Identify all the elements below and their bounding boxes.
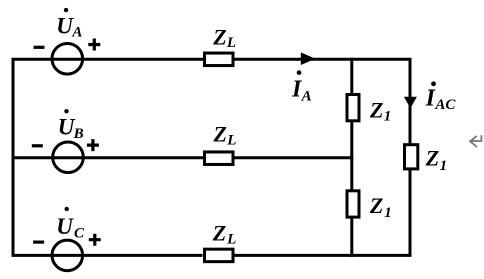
label ZL top — [212, 24, 236, 51]
svg-text:Z: Z — [369, 193, 383, 218]
paragraph return mark — [470, 135, 481, 147]
label U_C with dot — [56, 207, 85, 242]
svg-text:Z: Z — [425, 145, 439, 170]
source U_B — [53, 142, 84, 173]
svg-text:L: L — [226, 35, 236, 51]
svg-text:U: U — [56, 214, 74, 239]
wire branch vertical middle segment — [350, 121, 353, 191]
label ZL middle — [213, 122, 237, 149]
label IAC with dot — [425, 81, 457, 112]
minus sign of U_C — [33, 241, 44, 244]
svg-text:Z: Z — [369, 97, 383, 122]
label Z1 right — [425, 145, 447, 174]
svg-text:B: B — [73, 126, 84, 142]
wire left loop: top wire left segment, left vertical bus, bottom wire left segment — [13, 59, 203, 255]
resistor Z1 upper left box — [347, 95, 359, 121]
minus sign of U_B — [32, 144, 43, 147]
resistor ZL top box — [205, 53, 234, 66]
label Z1 upper left — [369, 97, 391, 124]
plus sign of U_A — [88, 39, 100, 51]
svg-text:A: A — [71, 24, 82, 40]
svg-text:L: L — [226, 133, 236, 149]
resistor Z1 lower left box — [347, 191, 359, 217]
svg-text:Z: Z — [212, 221, 226, 246]
plus sign of U_B — [87, 139, 99, 151]
svg-text:1: 1 — [384, 109, 392, 125]
svg-text:1: 1 — [384, 205, 392, 221]
label U_B with dot — [58, 109, 84, 142]
svg-text:AC: AC — [434, 97, 456, 113]
plus sign of U_C — [89, 234, 101, 246]
minus sign of U_A — [34, 46, 45, 49]
resistor Z1 right box — [405, 145, 418, 169]
wire right vertical below Z1 box and bottom wire right segment — [234, 170, 410, 255]
current arrow IA — [301, 52, 316, 65]
label IA with dot — [291, 70, 312, 104]
source U_A — [52, 44, 83, 75]
label U_A with dot — [56, 8, 82, 41]
svg-text:A: A — [301, 89, 312, 105]
wire middle row left segment — [13, 156, 203, 159]
label Z1 lower left — [369, 193, 392, 221]
wire top right segment and right vertical down to Z1 box — [234, 59, 410, 144]
svg-text:L: L — [226, 232, 236, 248]
svg-text:Z: Z — [212, 24, 226, 49]
resistor ZL bottom box — [205, 249, 234, 262]
source U_C — [52, 240, 83, 271]
svg-text:1: 1 — [440, 158, 448, 174]
wire branch vertical upper segment — [350, 58, 353, 95]
svg-text:Z: Z — [213, 122, 227, 147]
label ZL bottom — [212, 221, 236, 248]
wire branch vertical lower segment — [350, 217, 353, 257]
svg-text:C: C — [74, 226, 85, 242]
wire middle row right segment — [235, 156, 354, 159]
resistor ZL middle box — [205, 152, 234, 165]
current arrow IAC — [404, 97, 417, 109]
